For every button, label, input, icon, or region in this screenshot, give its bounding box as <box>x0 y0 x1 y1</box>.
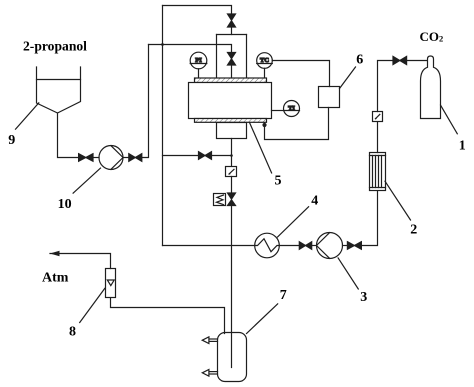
leader 8 <box>80 288 105 322</box>
arrowhead into reactor bottom <box>262 123 266 127</box>
valve (branch H2) <box>199 152 212 160</box>
wire valve to pump3 <box>312 245 317 247</box>
tank T9 (2-propanol feed hopper) <box>37 67 81 113</box>
svg-text:2-propanol: 2-propanol <box>23 39 87 54</box>
vessel V7 (separator) <box>218 333 247 382</box>
wire BPR down to vessel 7 dip tube <box>231 206 233 368</box>
wire H2 valve to outlet line <box>212 155 232 157</box>
wire TC to controller box <box>272 61 329 87</box>
leader 7 <box>247 304 278 334</box>
wire header H1 to valve V2 <box>149 45 232 53</box>
gas cylinder 1 <box>421 56 441 119</box>
svg-text:9: 9 <box>8 133 15 148</box>
wire valve to pump10 <box>93 157 99 159</box>
svg-text:7: 7 <box>280 288 287 303</box>
node junction V2/H1 <box>161 43 164 46</box>
leader 6 <box>340 67 356 89</box>
reactor R5 body <box>189 83 272 119</box>
pump P3 <box>317 233 343 259</box>
leader 9 <box>16 103 39 129</box>
leader 5 <box>250 123 272 173</box>
valve (pump10 discharge) <box>129 154 142 162</box>
rotameter 8 <box>106 269 116 298</box>
wire CO2 line to cylinder <box>378 61 394 112</box>
reactor R5 top flange (hatched) <box>195 78 267 83</box>
wire rotameter to atm <box>50 254 111 269</box>
back-pressure regulator valve <box>228 193 236 206</box>
wire tank outlet down to pump suction <box>58 113 79 158</box>
gauge TI stub <box>272 110 284 112</box>
svg-text:CO2: CO2 <box>420 29 444 44</box>
wire HX4 to valve <box>279 245 299 247</box>
reactor R5 bottom flange (hatched) <box>195 119 267 123</box>
svg-text:3: 3 <box>360 290 367 305</box>
tank T9 level line <box>37 79 81 81</box>
arrow to Atm <box>50 251 60 257</box>
heat exchanger HX4 <box>255 233 280 258</box>
wire branch H2 <box>163 155 199 157</box>
wire pump3 to valve <box>343 245 348 247</box>
wire pump10 to valve <box>123 157 129 159</box>
pump P10 <box>99 146 123 170</box>
wire reactor outlet down <box>231 139 233 167</box>
svg-text:5: 5 <box>275 174 282 189</box>
svg-text:TC: TC <box>260 57 269 64</box>
svg-text:1: 1 <box>459 139 466 154</box>
valve V1 (top bypass) <box>228 14 236 27</box>
filter F1 (square with dot) <box>226 167 237 177</box>
node junction H2/outlet <box>230 154 233 157</box>
reactor R5 bottom nozzle box <box>217 123 247 139</box>
wire manifold right drop <box>246 35 248 78</box>
wire valve to HX2 riser <box>361 191 377 246</box>
back-pressure regulator spring box <box>214 194 226 206</box>
svg-text:Atm: Atm <box>42 271 69 286</box>
wire valve V2 to reactor <box>231 65 233 78</box>
check square S2 (CO2 line) <box>373 112 383 122</box>
valve (pump3 discharge side) <box>299 242 311 250</box>
leader 2 <box>385 181 411 220</box>
valve V2 (reactor center feed) <box>228 53 236 66</box>
valve (pump3 suction side) <box>347 242 361 250</box>
wire valve to cylinder neck <box>407 60 428 62</box>
gauge TI <box>284 101 300 117</box>
heat exchanger HX2 (tube bundle) <box>370 153 386 191</box>
leader 3 <box>338 258 358 289</box>
svg-text:PI: PI <box>195 57 202 64</box>
wire left main riser V2 <box>162 6 164 246</box>
vessel stub A with arrow <box>206 338 218 340</box>
leader 1 <box>441 105 458 134</box>
wire filter to BPR <box>231 177 233 194</box>
svg-text:4: 4 <box>311 194 318 209</box>
wire top bypass line <box>163 6 232 15</box>
vessel stub B with arrow <box>206 371 218 373</box>
valve (CO2 cylinder) <box>393 56 407 64</box>
wire vessel vent to rotameter <box>111 298 225 334</box>
wire bottom CO2 feed line <box>163 245 255 247</box>
wire HX2 top riser <box>377 122 379 153</box>
vessel dip tube segment inside <box>231 333 233 368</box>
leader 10 <box>73 168 100 193</box>
svg-text:2: 2 <box>410 223 417 238</box>
wire valve V1 to manifold <box>231 27 233 35</box>
wire controller to reactor bottom <box>265 108 329 140</box>
leader 4 <box>278 207 309 237</box>
svg-text:10: 10 <box>58 197 72 212</box>
valve (pump10 suction) <box>79 154 93 162</box>
svg-text:6: 6 <box>356 53 363 68</box>
wire manifold left drop <box>216 35 218 78</box>
gauge PI <box>190 52 207 69</box>
svg-text:TI: TI <box>288 105 295 112</box>
wire manifold header <box>217 34 247 36</box>
svg-text:8: 8 <box>69 325 76 340</box>
controller box 6 <box>319 87 340 108</box>
gauge TC <box>257 53 273 69</box>
wire pump10 discharge riser V1 <box>142 45 149 158</box>
